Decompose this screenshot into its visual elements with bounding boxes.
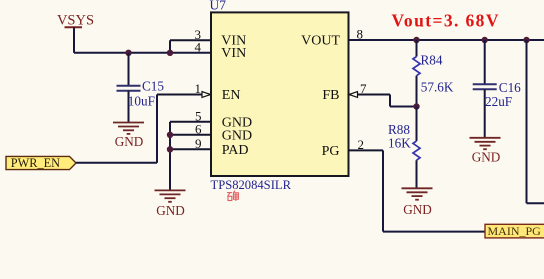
svg-text:GND: GND [472, 150, 501, 165]
capacitor C16 [473, 40, 497, 138]
svg-text:R84: R84 [421, 53, 443, 68]
svg-text:VOUT: VOUT [301, 34, 340, 49]
port MAIN_PG [485, 224, 544, 238]
wire vertical pin3 branch [169, 40, 171, 53]
svg-text:10uF: 10uF [128, 94, 155, 109]
node junction FB divider [413, 103, 419, 109]
pin 1 input arrow [202, 92, 211, 98]
node junction pin9 [167, 146, 173, 152]
node junction pin6 [167, 132, 173, 138]
svg-text:16K: 16K [388, 136, 411, 151]
svg-text:FB: FB [322, 88, 339, 103]
pin 6 GND [170, 134, 211, 136]
wire VOUT rail [349, 39, 544, 41]
svg-text:VIN: VIN [221, 46, 246, 61]
pin 1 EN [157, 94, 211, 96]
pin 3 VIN [170, 39, 211, 41]
power port VSYS [57, 13, 94, 53]
svg-text:GND: GND [403, 202, 432, 217]
svg-text:PAD: PAD [222, 143, 249, 158]
svg-text:U7: U7 [210, 0, 227, 13]
wire right branch down [527, 40, 544, 203]
pin 7 FB wire [350, 95, 417, 107]
node junction right branch [523, 37, 529, 43]
ground below C16 [470, 138, 501, 165]
svg-text:C15: C15 [142, 79, 164, 94]
svg-text:57.6K: 57.6K [421, 80, 454, 95]
pin 5 GND [170, 121, 211, 123]
pin 9 PAD [170, 148, 211, 150]
svg-text:9: 9 [195, 136, 202, 151]
capacitor C15 [117, 53, 141, 123]
svg-text:Vout=3. 68V: Vout=3. 68V [392, 10, 500, 30]
svg-text:PG: PG [322, 144, 340, 159]
node junction VIN [167, 50, 173, 56]
node junction C15 [125, 50, 131, 56]
svg-text:TPS82084SILR: TPS82084SILR [211, 178, 292, 192]
ground below C15 [113, 123, 144, 149]
svg-text:VSYS: VSYS [57, 13, 94, 29]
svg-text:22uF: 22uF [485, 94, 512, 109]
pin 2 PG wire [349, 150, 486, 231]
svg-text:1: 1 [195, 81, 202, 96]
svg-text:GND: GND [222, 128, 252, 143]
op-amp U7 body [211, 12, 349, 176]
svg-text:6: 6 [195, 121, 202, 136]
node junction C16 top [482, 37, 488, 43]
svg-text:GND: GND [156, 203, 185, 218]
net flag PWR_EN [6, 156, 76, 170]
wire PWR_EN to EN [76, 95, 157, 163]
ground below R88 [402, 188, 433, 217]
svg-text:MAIN_PG: MAIN_PG [488, 224, 542, 238]
resistor R88 [413, 107, 420, 189]
wire VSYS to VIN pins [74, 52, 211, 54]
svg-text:PWR_EN: PWR_EN [11, 156, 60, 170]
svg-text:EN: EN [222, 88, 241, 103]
pin 7 input arrow [349, 92, 358, 98]
ground below IC [155, 190, 186, 218]
wire GND pins vertical [169, 122, 171, 190]
svg-text:C16: C16 [499, 80, 521, 95]
node junction R84 top [413, 37, 419, 43]
red character mark [227, 191, 238, 201]
resistor R84 [413, 40, 420, 107]
svg-text:4: 4 [195, 39, 202, 54]
svg-text:GND: GND [115, 134, 144, 149]
svg-text:R88: R88 [388, 122, 410, 137]
